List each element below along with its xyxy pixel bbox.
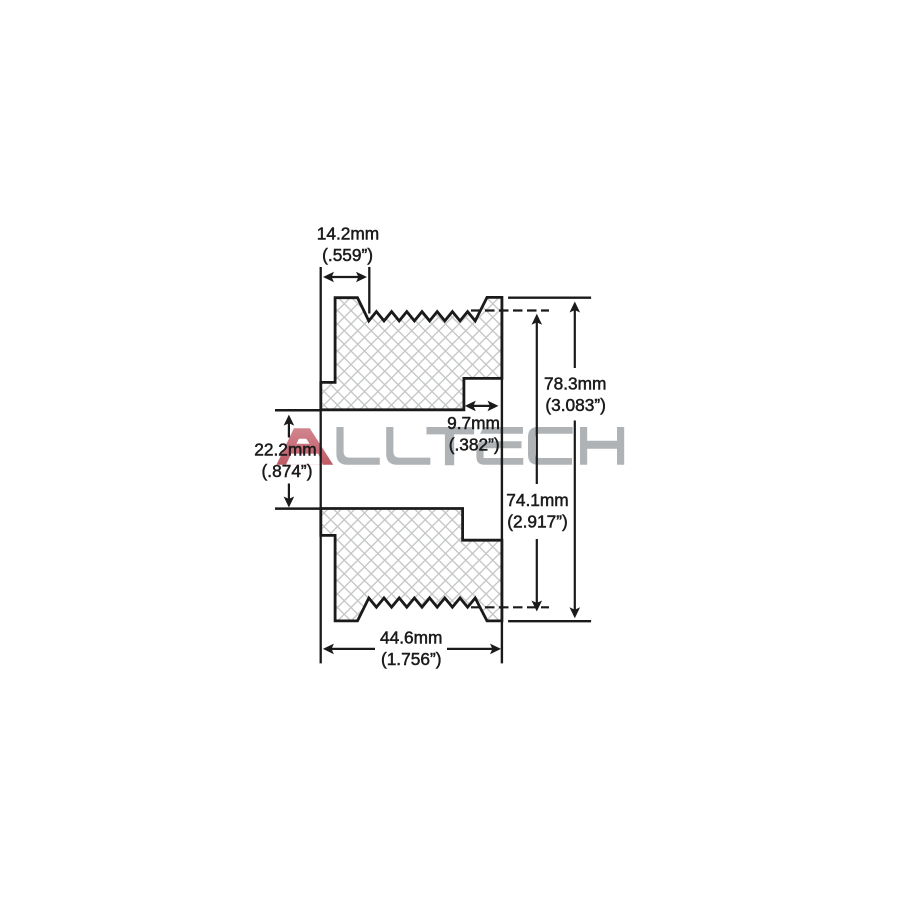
watermark letter L2 (386, 427, 430, 465)
watermark letter C (528, 427, 573, 465)
dim 44.6 arrows (323, 644, 501, 655)
dim 74.1 arrows (532, 314, 543, 612)
svg-text:(.559”): (.559”) (322, 245, 373, 265)
watermark letter E (476, 427, 523, 465)
svg-text:78.3mm: 78.3mm (544, 374, 606, 394)
dim 22.2 arrows (284, 415, 295, 508)
svg-text:(1.756”): (1.756”) (381, 649, 442, 669)
svg-text:22.2mm: 22.2mm (254, 440, 316, 460)
svg-text:(3.083”): (3.083”) (545, 395, 606, 415)
watermark letter A (red) (277, 428, 334, 465)
dim 78.3 arrows (570, 302, 581, 619)
extension line mid-left bottom horizontal (275, 507, 322, 510)
extension line mid-left top horizontal (275, 409, 322, 412)
dim 14.2 arrows (323, 272, 367, 283)
extension line left vertical (320, 267, 322, 663)
svg-text:(2.917”): (2.917”) (507, 512, 568, 532)
watermark letter T (427, 427, 475, 465)
watermark letter H (580, 427, 624, 465)
svg-text:44.6mm: 44.6mm (380, 628, 442, 648)
svg-text:14.2mm: 14.2mm (317, 223, 379, 243)
extension line top right horizontal (508, 297, 591, 299)
extension line bottom right horizontal (508, 620, 591, 622)
dim 9.7 arrows (465, 401, 499, 412)
extension line 14.2 right vertical (368, 267, 370, 314)
pulley top section (hatched) (321, 297, 502, 409)
watermark letter L1 (336, 427, 379, 465)
svg-text:9.7mm: 9.7mm (447, 413, 500, 433)
svg-text:(.382”): (.382”) (449, 434, 500, 454)
extension line right vertical (501, 297, 503, 663)
pulley bottom section (hatched) (321, 509, 502, 621)
dashed centerline top (471, 309, 549, 311)
svg-text:(.874”): (.874”) (262, 461, 313, 481)
svg-text:74.1mm: 74.1mm (506, 490, 568, 510)
dashed centerline bottom (471, 606, 549, 608)
